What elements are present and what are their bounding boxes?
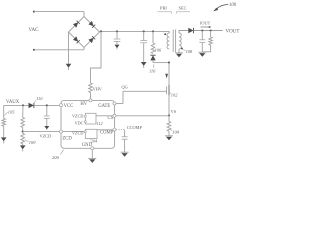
wire (83, 48, 85, 50)
transistor Q1 channel (168, 85, 170, 96)
resistor 104 sense (167, 121, 171, 131)
svg-text:102: 102 (171, 93, 178, 98)
transformer T1 primary winding (167, 33, 169, 49)
svg-text:200: 200 (52, 155, 60, 160)
label VZCD net (40, 134, 52, 139)
resistor startup (89, 83, 93, 93)
label VZCD input 2 (72, 130, 83, 135)
pin CS (108, 114, 117, 121)
wire gate (123, 90, 167, 92)
svg-text:100: 100 (229, 3, 237, 8)
label 112 (96, 121, 103, 126)
ground sense resistor (165, 136, 173, 141)
node VAC line1 terminal (33, 11, 35, 13)
label 105 (5, 109, 16, 115)
wire source (168, 96, 170, 116)
wire (46, 119, 48, 126)
svg-text:VAUX: VAUX (6, 100, 20, 105)
wire drain (168, 63, 170, 86)
ground AC side (66, 64, 72, 70)
wire (179, 31, 188, 34)
svg-text:HV: HV (80, 102, 87, 107)
svg-text:VAC: VAC (29, 28, 40, 33)
svg-text:QG: QG (122, 85, 128, 90)
pin VCC (59, 104, 73, 109)
wire (116, 129, 124, 131)
ground CCOMP (121, 152, 129, 157)
current arrow IOUT (201, 26, 212, 28)
label 116 (149, 64, 156, 73)
wire (168, 116, 170, 136)
capacitor input filter (114, 39, 121, 41)
ground bulk cap (141, 62, 147, 68)
wire (143, 31, 145, 40)
wire (194, 30, 223, 32)
label 106 (154, 48, 162, 53)
svg-text:VZCD: VZCD (72, 114, 83, 119)
wire (3, 105, 5, 118)
capacitor VCC (44, 116, 50, 118)
wire inside CS (96, 115, 113, 117)
wire (210, 31, 212, 38)
svg-text:VZCD: VZCD (40, 134, 52, 139)
node rail-snubber junction (152, 30, 154, 32)
svg-text:110: 110 (36, 96, 43, 101)
svg-text:SEC: SEC (179, 6, 187, 11)
wire (153, 60, 169, 62)
current arrow drain (165, 74, 168, 79)
resistor 107 (21, 117, 25, 127)
pin COMP (100, 128, 116, 135)
svg-text:104: 104 (172, 129, 179, 134)
label VHV (93, 87, 103, 92)
label 104 (170, 129, 180, 134)
svg-text:105: 105 (8, 109, 15, 114)
label VDC input (75, 120, 84, 125)
wire (124, 130, 126, 137)
label QG (122, 85, 128, 90)
label PRI (158, 6, 172, 14)
wire inside ZCD (63, 131, 86, 133)
ground input cap (115, 45, 120, 50)
wire (90, 93, 92, 99)
label 108 (183, 49, 193, 54)
node drain junction (168, 62, 170, 64)
pin GATE (98, 102, 116, 109)
wire (34, 11, 84, 13)
svg-text:VS: VS (171, 109, 177, 114)
wire (91, 150, 93, 158)
ground secondary (175, 53, 183, 58)
wire (178, 49, 180, 53)
node rail-cap junction (116, 30, 118, 32)
wire (34, 49, 84, 51)
ground output (198, 52, 206, 57)
pin ZCD (59, 130, 72, 141)
svg-text:PRI: PRI (160, 6, 167, 11)
node output load junction (210, 29, 212, 31)
label VZCD input (72, 114, 83, 119)
resistor 109 (21, 133, 25, 143)
wire (124, 139, 126, 152)
svg-text:108: 108 (186, 49, 193, 54)
wire (68, 32, 70, 64)
ground 109 (20, 145, 26, 151)
node output cap junction (201, 29, 203, 31)
block comparator 112 (84, 113, 96, 124)
wire (91, 31, 102, 83)
wire (34, 104, 59, 106)
svg-text:ZCD: ZCD (62, 136, 72, 141)
svg-text:GND: GND (82, 143, 93, 148)
ground IC GND (88, 158, 96, 163)
transformer core (173, 30, 175, 53)
label 110 (34, 96, 43, 103)
diode D3 bridge lower-left (73, 36, 80, 43)
node rail-HV junction (100, 30, 102, 32)
wire (122, 91, 124, 103)
wire (116, 103, 123, 105)
bridge rectifier BR1 outline (69, 17, 100, 48)
wire (143, 43, 145, 62)
wire inside COMP (97, 129, 113, 131)
label SEC (177, 6, 191, 14)
label IOUT (200, 20, 211, 25)
label VAUX (6, 100, 20, 105)
wire (152, 31, 154, 43)
node VCC cap junction (46, 104, 48, 106)
svg-text:106: 106 (155, 48, 162, 53)
capacitor output (199, 40, 205, 43)
label 100 figure number (213, 3, 236, 12)
diode D4 bridge lower-right (88, 36, 95, 43)
svg-text:112: 112 (97, 121, 103, 126)
wire ZCD (23, 131, 60, 133)
label VAC (29, 28, 40, 33)
diode 110 (29, 103, 34, 108)
wire (22, 105, 24, 117)
transformer T1 secondary winding (179, 33, 181, 49)
label 109 (25, 140, 36, 146)
svg-text:COMP: COMP (100, 131, 114, 136)
wire (22, 132, 24, 146)
wire (116, 42, 118, 45)
pin GND (82, 143, 94, 150)
svg-text:CCOMP: CCOMP (127, 125, 143, 130)
label VS (171, 109, 177, 114)
op-amp controller U1 outline (61, 100, 115, 148)
wire (202, 45, 210, 52)
wire (83, 12, 85, 17)
wire (116, 31, 118, 38)
resistor 106 (151, 43, 155, 54)
transistor Q1 gate bar (166, 86, 168, 94)
capacitor bulk (140, 40, 147, 42)
ground 105 (1, 137, 7, 143)
label VOUT (226, 30, 240, 35)
svg-text:VCC: VCC (64, 104, 74, 109)
diode D2 bridge upper-right (88, 21, 95, 28)
node rail-bulkcap junction (143, 30, 145, 32)
svg-text:VOUT: VOUT (226, 30, 240, 35)
wire main DC rail (100, 30, 170, 32)
svg-text:IOUT: IOUT (200, 20, 211, 25)
svg-text:204: 204 (91, 139, 97, 144)
node VS junction (168, 114, 170, 116)
resistor load (209, 37, 213, 45)
node VAC line2 terminal (33, 49, 35, 51)
diode D1 bridge upper-left (73, 21, 80, 28)
svg-text:VZCD: VZCD (72, 130, 83, 135)
svg-text:VHV: VHV (93, 87, 103, 92)
svg-text:GATE: GATE (98, 104, 110, 109)
node primary polarity dot (164, 33, 166, 35)
label 200 (52, 150, 64, 160)
block comparator 204 (84, 129, 97, 138)
wire (168, 31, 170, 33)
svg-text:CS: CS (108, 116, 114, 121)
diode clamp (150, 55, 155, 60)
wire (22, 127, 24, 131)
node secondary polarity dot (181, 47, 183, 49)
wire (201, 43, 203, 52)
wire (4, 104, 29, 106)
resistor 105 (2, 118, 6, 126)
wire CS sense (116, 115, 169, 117)
wire (46, 105, 48, 115)
label CCOMP (127, 125, 143, 130)
diode output rectifier (188, 28, 193, 34)
label 204 (90, 139, 97, 144)
label 102 (170, 92, 178, 97)
svg-text:116: 116 (149, 69, 156, 74)
wire (201, 31, 203, 40)
svg-text:VDC: VDC (75, 120, 84, 125)
svg-text:109: 109 (29, 140, 36, 145)
ground VCC cap (44, 126, 49, 130)
capacitor CCOMP (122, 137, 128, 139)
node ZCD divider junction (22, 131, 24, 133)
pin HV (80, 99, 92, 107)
wire (3, 126, 5, 137)
node VAUX junction (22, 104, 24, 106)
